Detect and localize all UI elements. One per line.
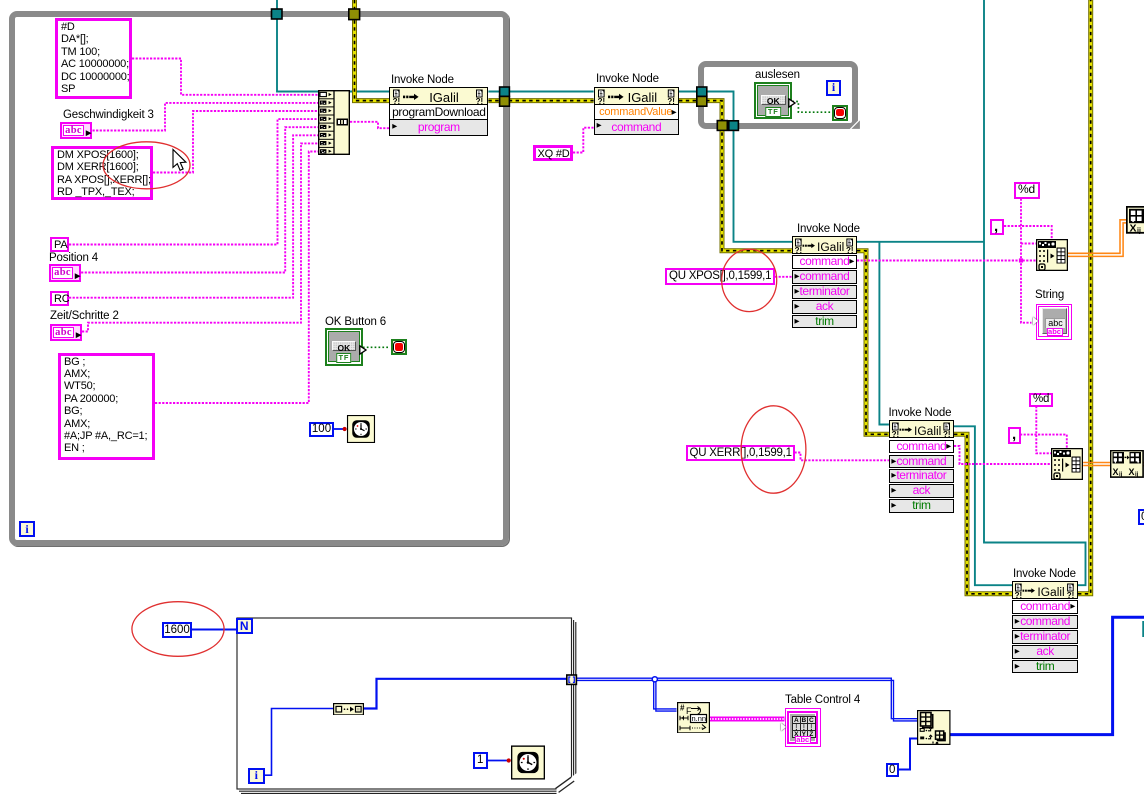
string constant %d 2	[1029, 393, 1053, 407]
array to spreadsheet string	[677, 702, 710, 734]
N terminal of for loop	[236, 618, 253, 635]
string constant DM XPOS	[51, 146, 153, 200]
Invoke Node 1 (programDownload)	[389, 87, 488, 105]
label Invoke Node 4	[889, 407, 952, 419]
indexing tunnel on for loop	[567, 675, 577, 684]
wire: teal long vertical from top edge to node5 header right	[984, 0, 1086, 585]
string control Geschwindigkeit 3 (abc)	[60, 122, 92, 140]
wire: teal node3 right with branch down to node4	[857, 241, 984, 243]
OK Button 6	[325, 328, 363, 366]
wire: thick braided string array to Table Control 4	[710, 717, 785, 722]
spreadsheet string to array 2	[1051, 448, 1083, 480]
tunnel: refnum on big loop top border	[272, 9, 283, 19]
tunnel: error on auslesen loop left border	[697, 96, 707, 106]
label Geschwindigkeit 3	[63, 109, 154, 121]
label Table Control 4	[785, 694, 860, 706]
wire: teal refnum from top edge into big loop to Invoke Node 1	[277, 0, 1143, 637]
label auslesen	[755, 69, 800, 81]
wire: QU XPOS to node3 command	[775, 276, 792, 278]
wire: blue index array to loop tunnel	[364, 679, 567, 709]
wire: node4 command out to string-to-array 2	[954, 446, 1051, 464]
wire: blue array double line from tunnel to build node	[576, 678, 917, 721]
wire: blue 100 to wait	[334, 428, 346, 430]
pink string wires	[69, 59, 1067, 465]
wire: error e1 top edge to invoke node 1	[355, 0, 390, 101]
wire: DM XPOS const to concat cell3	[153, 111, 318, 173]
string control Position 4 (abc)	[49, 264, 81, 282]
wire: error e3 node2 through auslesen loop to node3	[679, 101, 792, 251]
components layer	[0, 0, 1144, 1]
string constant %d 1	[1014, 182, 1040, 199]
iteration terminal i of big loop	[19, 521, 35, 537]
iteration terminal i of auslesen loop	[826, 80, 841, 96]
string constant comma 2	[1008, 427, 1021, 444]
label Position 4	[49, 252, 98, 264]
wire: XQ #D to node2 command	[573, 128, 594, 153]
wire: blue 1600 to N	[192, 629, 237, 631]
string constant RC	[50, 291, 69, 306]
wire: blue 1 to wait	[488, 760, 511, 762]
wire: %d 1 down with branches	[1021, 199, 1032, 323]
string constant #D program	[55, 18, 132, 99]
wire: blue branch down to array-to-spreadsheet-string	[652, 677, 676, 711]
label Invoke Node 3	[797, 223, 860, 235]
wire: Zeit/Schritte to concat cell7	[82, 143, 318, 331]
numeric constant 0	[886, 763, 900, 778]
label Invoke Node 2	[596, 73, 659, 85]
index array icon 2 (double)	[1110, 450, 1144, 478]
tunnel: error on auslesen loop bottom border	[717, 121, 727, 131]
wire: error e2 node1 to node2	[488, 98, 593, 103]
concatenate strings node	[318, 90, 350, 155]
wire: blue i to index array	[265, 709, 334, 776]
red ellipse around QU XPOS constant	[722, 249, 777, 311]
tunnel: refnum on big loop right border	[500, 87, 510, 96]
string indicator String (abc)	[1036, 304, 1072, 340]
wire: node3 command out to string-to-array 1	[857, 260, 1036, 262]
wire: error e6 node5 up to top edge	[1078, 0, 1091, 594]
wire: blue thick output of build node up to right edge	[951, 617, 1144, 734]
Invoke Node 4 (QU XERR)	[889, 420, 954, 439]
wire: BG const to concat cell8	[155, 152, 318, 404]
OK Button 6 label	[325, 316, 386, 328]
wire: teal node2 through auslesen loop down to node3	[679, 92, 792, 242]
wait (ms) function	[346, 415, 376, 443]
string constant BG program	[58, 353, 155, 460]
Invoke Node 5	[1012, 581, 1078, 600]
red ellipse around QU XERR constant	[741, 406, 806, 493]
label String	[1035, 289, 1064, 301]
numeric constant 1	[473, 752, 488, 769]
wire: Geschwindigkeit to concat cell2	[93, 103, 319, 131]
big while loop frame	[9, 11, 509, 546]
string constant PA	[50, 237, 69, 252]
auslesen while loop frame	[698, 61, 858, 129]
i terminal of for loop	[248, 768, 265, 785]
tunnel: refnum on auslesen loop left border	[697, 87, 707, 96]
OK button in auslesen loop	[754, 82, 792, 120]
string constant comma 1	[990, 219, 1004, 235]
string constant QU XERR	[686, 445, 795, 462]
label Invoke Node 1	[391, 74, 454, 86]
build/interleave array node	[917, 710, 951, 745]
index array (small) inside for loop	[333, 703, 364, 716]
stop terminal in auslesen loop	[832, 105, 848, 121]
wire: comma 2 to string-to-array 2	[1020, 435, 1067, 448]
for loop corner notch	[557, 773, 577, 794]
wire: Position 4 to concat cell5	[78, 127, 319, 272]
orange DBL array wires	[1068, 220, 1144, 466]
wire: teal node1 to node2	[488, 91, 593, 93]
label Zeit/Schritte 2	[50, 310, 119, 322]
wire: teal node4 out down to node5 header left	[954, 426, 1012, 585]
string control Zeit/Schritte 2 (abc)	[50, 324, 82, 342]
red ellipse around 1600 constant	[132, 602, 224, 657]
junction dot pink	[1019, 258, 1023, 262]
red ellipse around DM XPOS constant	[103, 142, 190, 189]
Table Control 4	[785, 708, 822, 747]
stop terminal for OK Button 6	[391, 339, 407, 355]
wire: green boolean OK Button 6 to stop terminal	[363, 346, 390, 348]
Invoke Node 2 (commandValue)	[594, 87, 679, 105]
wire: error e5 node4 to node5	[954, 434, 1012, 594]
wire: RC to concat cell6	[69, 135, 318, 297]
wire: green boolean auslesen OK to stop terminal	[792, 102, 831, 113]
wire: teal stub right edge	[1142, 621, 1144, 637]
Invoke Node 3 (QU XPOS)	[792, 236, 857, 255]
wire: %d 2 down to string-to-array 2	[1036, 406, 1051, 453]
string constant XQ #D	[533, 145, 574, 161]
wire: SC1 to concat cell1	[132, 59, 318, 95]
wire: concat output to node1 program	[350, 122, 389, 128]
string constant QU XPOS	[665, 268, 775, 285]
wire: QU XERR to node4 command	[795, 453, 889, 461]
label Invoke Node 5	[1013, 568, 1076, 580]
wire: comma 1 to string-to-array 1	[1004, 226, 1052, 239]
wire: PA to concat cell4	[69, 119, 318, 244]
numeric constant 0 at right edge	[1138, 509, 1144, 525]
tunnel: error on big loop right border	[500, 96, 510, 106]
index array icon top right	[1126, 206, 1144, 234]
tunnel: error on big loop top border	[349, 9, 360, 20]
numeric constant 100	[309, 422, 334, 437]
wait (ms) function in for loop	[511, 745, 545, 780]
mouse cursor	[173, 150, 186, 171]
for loop frame	[237, 618, 576, 793]
wire: error e4 node3 to node4	[857, 251, 889, 435]
spreadsheet string to array 1	[1036, 239, 1068, 271]
tunnel: refnum on auslesen loop bottom border	[729, 121, 739, 131]
wire: blue 0 to build node	[899, 739, 917, 770]
numeric constant 1600	[162, 622, 192, 638]
